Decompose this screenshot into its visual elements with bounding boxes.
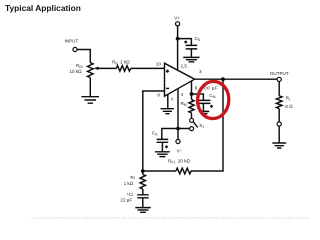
svg-text:OUTPUT: OUTPUT: [270, 71, 289, 76]
node V+ terminal: [174, 15, 180, 26]
pin 4 stub: [178, 89, 184, 129]
capacitor C_S (supply bypass, bottom): [152, 131, 168, 152]
resistor Ri 1k: [124, 171, 146, 189]
capacitor C_M 100uF: [199, 85, 218, 111]
pin 9 wire (inverting input): [143, 91, 165, 171]
node pin4 / V- junction: [176, 127, 180, 131]
wire feedback right side: [191, 79, 223, 171]
svg-text:7: 7: [171, 97, 174, 102]
svg-text:V+: V+: [174, 15, 180, 20]
resistor R_IN 10k potentiometer: [70, 63, 99, 78]
svg-text:22 µF: 22 µF: [120, 197, 132, 202]
svg-text:4: 4: [181, 92, 184, 97]
capacitor *Ci 22uF: [120, 189, 148, 207]
resistor R_M: [181, 100, 195, 113]
node V- terminal: [176, 129, 183, 154]
svg-text:9: 9: [157, 92, 160, 97]
pin 7 stub and ground: [161, 94, 174, 113]
pin 3 output wire: [195, 69, 278, 79]
svg-text:8: 8: [195, 85, 198, 90]
svg-text:V−: V−: [177, 148, 183, 153]
svg-text:1,5: 1,5: [181, 63, 188, 68]
ground under C_S (bottom): [155, 152, 170, 157]
ground under Ci: [135, 208, 150, 213]
wire R_B to pin 10: [131, 67, 165, 69]
ground under R_IN: [82, 78, 100, 104]
svg-text:1 kΩ: 1 kΩ: [124, 181, 134, 186]
lower output terminal: [277, 109, 281, 127]
svg-text:8 Ω: 8 Ω: [285, 104, 293, 109]
ground under C_S (top): [183, 57, 199, 61]
svg-text:INPUT: INPUT: [65, 39, 79, 44]
wire rail to feedback node: [143, 170, 176, 172]
ground under R_L: [272, 126, 286, 148]
wire pin8 junction to C_M: [192, 94, 204, 100]
switch S1: [190, 113, 205, 131]
wire S1 to V- node: [162, 129, 190, 140]
node feedback junction: [141, 169, 145, 173]
op-amp U1 triangle: [165, 63, 195, 96]
capacitor C_S (supply bypass, top): [184, 36, 201, 57]
resistor R_B 1k: [112, 60, 131, 72]
node output junction: [221, 77, 225, 81]
svg-text:* Ci improves power supply rej: * Ci improves power supply rejection and…: [30, 215, 310, 220]
node pin8 junction: [190, 92, 194, 96]
wire input to R_IN top: [77, 50, 90, 63]
svg-text:*Ci: *Ci: [127, 192, 133, 197]
node INPUT terminal: [65, 39, 79, 52]
ground under C_M: [199, 111, 209, 115]
annotation red circle around C_M: [196, 80, 230, 119]
resistor R_F1 20k: [168, 159, 191, 174]
svg-text:Ri: Ri: [130, 175, 134, 180]
wire wiper to R_B: [98, 67, 116, 69]
node OUTPUT terminal: [270, 71, 289, 82]
resistor R_L 8 ohm: [276, 82, 293, 110]
pin 8 stub: [192, 81, 198, 100]
svg-text:10: 10: [156, 61, 162, 66]
wire V+ down to pins 1,5: [177, 26, 179, 70]
svg-text:10 kΩ: 10 kΩ: [70, 69, 83, 74]
junction V+ / C_S: [176, 37, 180, 41]
wire to capacitor C_S (top): [178, 39, 192, 45]
svg-text:Typical Application: Typical Application: [5, 3, 81, 13]
svg-text:3: 3: [199, 69, 202, 74]
